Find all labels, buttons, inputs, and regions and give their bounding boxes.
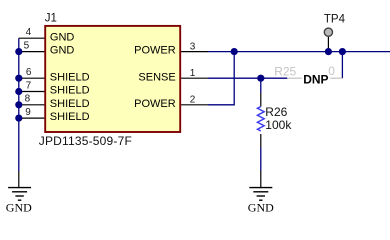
svg-text:GND: GND	[50, 31, 75, 43]
junction dot bus pin7	[15, 88, 22, 95]
wire pin2 up to pin3 net	[208, 52, 234, 105]
pin 9 (SHIELD) stub	[19, 107, 90, 123]
svg-text:TP4: TP4	[324, 14, 346, 26]
svg-text:SHIELD: SHIELD	[50, 98, 90, 110]
junction dot pin2/pin3 net	[231, 48, 238, 55]
svg-text:2: 2	[190, 95, 196, 106]
wire node A to R25 left lead	[261, 77, 288, 79]
wire left bus vertical	[18, 38, 20, 171]
svg-text:JPD1135-509-7F: JPD1135-509-7F	[39, 134, 132, 148]
pin 6 (SHIELD) stub	[19, 67, 90, 83]
wire pin1 to node A	[208, 77, 261, 79]
svg-text:100k: 100k	[265, 118, 292, 132]
svg-text:SENSE: SENSE	[138, 71, 175, 83]
svg-text:4: 4	[26, 27, 32, 38]
svg-text:DNP: DNP	[303, 73, 328, 87]
resistor R26 100k	[257, 78, 292, 147]
connector J1 body	[45, 26, 180, 132]
pin 3 (POWER) stub	[134, 41, 208, 56]
pin 4 (GND) stub	[19, 27, 75, 43]
svg-text:3: 3	[190, 41, 196, 52]
svg-text:POWER: POWER	[134, 45, 176, 57]
ground GND center	[248, 171, 274, 215]
svg-text:8: 8	[25, 94, 31, 105]
pin 2 (POWER) stub	[134, 95, 208, 110]
resistor R25 (DNP, greyed)	[274, 64, 342, 79]
svg-text:6: 6	[26, 67, 32, 78]
svg-text:SHIELD: SHIELD	[50, 71, 90, 83]
junction dot bus pin5	[15, 48, 22, 55]
svg-text:R25: R25	[274, 65, 296, 79]
wire R25 right vertical	[341, 52, 343, 79]
svg-text:GND: GND	[6, 201, 32, 215]
svg-text:GND: GND	[50, 45, 75, 57]
junction dot bus pin9	[15, 115, 22, 122]
pin 7 (SHIELD) stub	[19, 80, 90, 96]
svg-text:SHIELD: SHIELD	[50, 85, 90, 97]
pin 5 (GND) stub	[19, 41, 75, 57]
designator J1	[45, 13, 57, 25]
svg-text:GND: GND	[248, 201, 274, 215]
junction dot TP4	[325, 48, 332, 55]
ground GND left	[6, 171, 32, 215]
pin 8 (SHIELD) stub	[19, 94, 90, 110]
junction dot R25 right net	[339, 48, 346, 55]
junction dot bus pin6	[15, 75, 22, 82]
DNP marker	[302, 73, 331, 87]
junction dot node A (R26/R25)	[257, 75, 264, 82]
svg-text:SHIELD: SHIELD	[50, 111, 90, 123]
svg-text:1: 1	[190, 68, 196, 79]
test point TP4	[324, 14, 346, 52]
junction dot bus pin8	[15, 101, 22, 108]
svg-text:7: 7	[26, 80, 32, 91]
wire R26 to ground	[260, 148, 262, 171]
svg-text:9: 9	[25, 107, 31, 118]
svg-text:5: 5	[24, 41, 30, 52]
svg-text:J1: J1	[45, 13, 57, 25]
wire pin3 to right edge	[208, 51, 390, 53]
svg-text:POWER: POWER	[134, 98, 176, 110]
pin 1 (SENSE) stub	[138, 68, 208, 83]
value JPD1135-509-7F	[39, 134, 132, 148]
